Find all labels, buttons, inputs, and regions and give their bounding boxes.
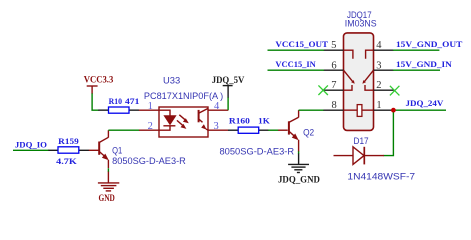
resistor R159 xyxy=(48,136,89,166)
relay arm left xyxy=(344,70,354,82)
svg-text:R159: R159 xyxy=(58,136,79,146)
pin 1 xyxy=(374,109,394,111)
wire pin1 down to D17 cathode xyxy=(384,110,394,155)
svg-text:3: 3 xyxy=(214,121,219,132)
relay coil xyxy=(344,109,358,111)
pin 1 xyxy=(139,109,159,111)
svg-text:15V_GND_IN: 15V_GND_IN xyxy=(396,59,452,69)
transistor Q1 xyxy=(89,130,186,168)
resistor R160 xyxy=(228,116,270,134)
svg-text:2: 2 xyxy=(376,80,381,91)
svg-text:JDQ_GND: JDQ_GND xyxy=(278,175,320,186)
phototransistor inside opto xyxy=(198,110,200,122)
svg-text:8: 8 xyxy=(331,100,336,111)
wire VCC3.3 to R10 xyxy=(92,93,99,110)
light arrows xyxy=(179,115,185,120)
relay body xyxy=(344,33,374,130)
svg-text:4: 4 xyxy=(214,101,220,112)
pin 2 xyxy=(139,129,159,131)
svg-text:R10: R10 xyxy=(109,96,123,106)
pin 3 xyxy=(374,69,394,71)
ground JDQ_GND (black) xyxy=(288,154,309,173)
svg-text:1: 1 xyxy=(376,100,381,111)
svg-text:15V_GND_OUT: 15V_GND_OUT xyxy=(396,39,462,49)
pin 4 xyxy=(208,109,228,111)
wire VCC15_IN xyxy=(268,69,325,71)
relay contact left top xyxy=(344,50,353,59)
svg-text:8050SG-D-AE3-R: 8050SG-D-AE3-R xyxy=(112,155,186,166)
svg-text:4.7K: 4.7K xyxy=(56,156,77,166)
svg-text:6: 6 xyxy=(331,60,336,71)
pin 8 xyxy=(324,109,344,111)
svg-text:VCC3.3: VCC3.3 xyxy=(84,75,114,86)
svg-text:471: 471 xyxy=(125,96,139,106)
svg-text:PC817X1NIP0F(A ): PC817X1NIP0F(A ) xyxy=(144,90,223,101)
svg-text:GND: GND xyxy=(99,193,115,204)
relay arm right xyxy=(364,70,373,82)
node JDQ_5V power port xyxy=(212,75,245,98)
node VCC3.3 power port xyxy=(84,75,114,94)
relay contact right top xyxy=(366,50,374,59)
wire JDQ_24V xyxy=(393,109,446,111)
wire Q1 collector to opto pin2 xyxy=(108,129,139,131)
svg-text:8050SG-D-AE3-R: 8050SG-D-AE3-R xyxy=(220,146,295,157)
svg-text:VCC15_IN: VCC15_IN xyxy=(275,59,316,69)
relay JDQ17 xyxy=(324,9,395,131)
wire JDQ_5V to opto pin4 xyxy=(227,98,229,111)
wire 15V_GND_OUT xyxy=(393,49,439,51)
pin 4 xyxy=(374,49,394,51)
svg-text:U33: U33 xyxy=(163,75,180,86)
pin 6 xyxy=(324,69,344,71)
svg-text:IM03NS: IM03NS xyxy=(345,17,377,28)
svg-text:VCC15_OUT: VCC15_OUT xyxy=(275,39,328,49)
svg-text:JDQ_5V: JDQ_5V xyxy=(212,75,245,86)
pin 3 xyxy=(208,129,228,131)
svg-text:5: 5 xyxy=(331,40,336,51)
svg-text:3: 3 xyxy=(376,60,381,71)
svg-text:JDQ_IO: JDQ_IO xyxy=(15,139,47,149)
junction dot pin 1 xyxy=(391,108,396,113)
wire JDQ_IO to R159 xyxy=(13,149,49,151)
no-ERC X on pin 2 xyxy=(390,86,400,96)
svg-text:R160: R160 xyxy=(229,116,251,126)
svg-text:1: 1 xyxy=(148,101,153,112)
wire 15V_GND_IN xyxy=(393,69,440,71)
wire R160 to Q2 base xyxy=(268,129,278,131)
diode D17 xyxy=(334,135,416,182)
svg-text:1N4148WSF-7: 1N4148WSF-7 xyxy=(347,170,415,181)
LED inside opto xyxy=(159,110,170,115)
pin 5 xyxy=(324,49,344,51)
wire Q2 emitter to JDQ_GND xyxy=(298,151,300,154)
ground GND (power ground, maroon) xyxy=(98,172,119,191)
svg-text:4: 4 xyxy=(376,40,382,51)
wire Q1 emitter to GND xyxy=(107,168,109,172)
svg-text:JDQ_24V: JDQ_24V xyxy=(406,98,445,108)
svg-text:7: 7 xyxy=(331,80,336,91)
pin 7 xyxy=(324,89,344,91)
svg-text:1K: 1K xyxy=(258,116,270,126)
wire Q2 collector to relay pin 8 xyxy=(299,109,324,111)
svg-text:Q2: Q2 xyxy=(303,127,314,138)
no-ERC X on pin 7 xyxy=(318,85,328,95)
wire VCC15_OUT xyxy=(268,49,325,51)
opto body xyxy=(159,107,208,137)
resistor R10 xyxy=(98,96,139,113)
op-amp U33 optocoupler PC817 xyxy=(139,75,229,138)
pin 2 xyxy=(374,89,395,91)
svg-text:2: 2 xyxy=(148,121,153,132)
transistor Q2 xyxy=(220,110,315,157)
svg-text:D17: D17 xyxy=(354,135,369,146)
